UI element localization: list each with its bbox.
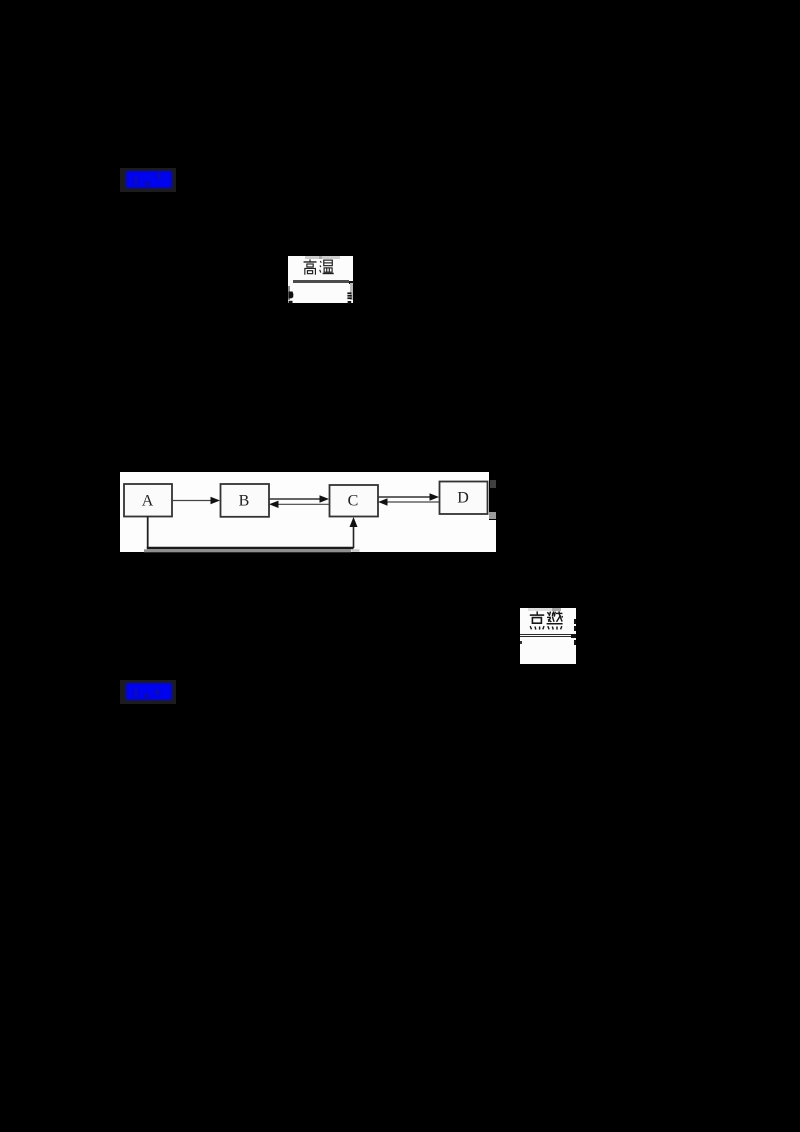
box C [330, 485, 379, 517]
svg-text:D: D [457, 489, 469, 506]
arrow A to B [172, 499, 212, 501]
light selection handle [489, 512, 496, 519]
flowchart white area [120, 472, 489, 553]
svg-text:B: B [239, 492, 250, 509]
glyphs GAO WEN (simplified strokes) [303, 259, 335, 276]
wen [320, 261, 321, 263]
gray shadow under return line [144, 549, 351, 552]
gaowen (high temp) equation patch [288, 256, 354, 304]
box A [124, 484, 172, 517]
up line into C [353, 524, 355, 548]
arrow C to D upper [378, 496, 431, 498]
left tiny mark [520, 641, 522, 644]
gao [309, 260, 311, 262]
blue tag label 2 [120, 680, 176, 704]
svg-text:A: A [142, 492, 154, 509]
right white strip under D [489, 520, 497, 552]
double reaction line [520, 634, 573, 636]
right gray column [350, 283, 354, 300]
glyphs DIAN RAN [529, 611, 563, 631]
dark selection handle [490, 480, 496, 487]
bottom return line [147, 546, 354, 548]
left gray column [288, 286, 290, 300]
left glyph fragment [288, 291, 295, 304]
box D [440, 481, 488, 514]
ran [547, 613, 549, 615]
top gray strips [305, 256, 340, 259]
svg-text:C: C [348, 492, 359, 509]
right glyph fragment [347, 292, 353, 304]
reaction line [293, 280, 349, 283]
top gray strips [528, 608, 553, 611]
right edge fragments [574, 619, 576, 624]
blue tag label 1 [120, 168, 176, 192]
box B [221, 484, 270, 517]
dian [536, 612, 538, 615]
arrow C to B lower [277, 503, 329, 505]
arrow D to C lower [386, 501, 439, 503]
dianran (ignite) equation patch [520, 608, 576, 664]
arrow B to C upper [269, 498, 321, 500]
A down line [147, 516, 149, 548]
